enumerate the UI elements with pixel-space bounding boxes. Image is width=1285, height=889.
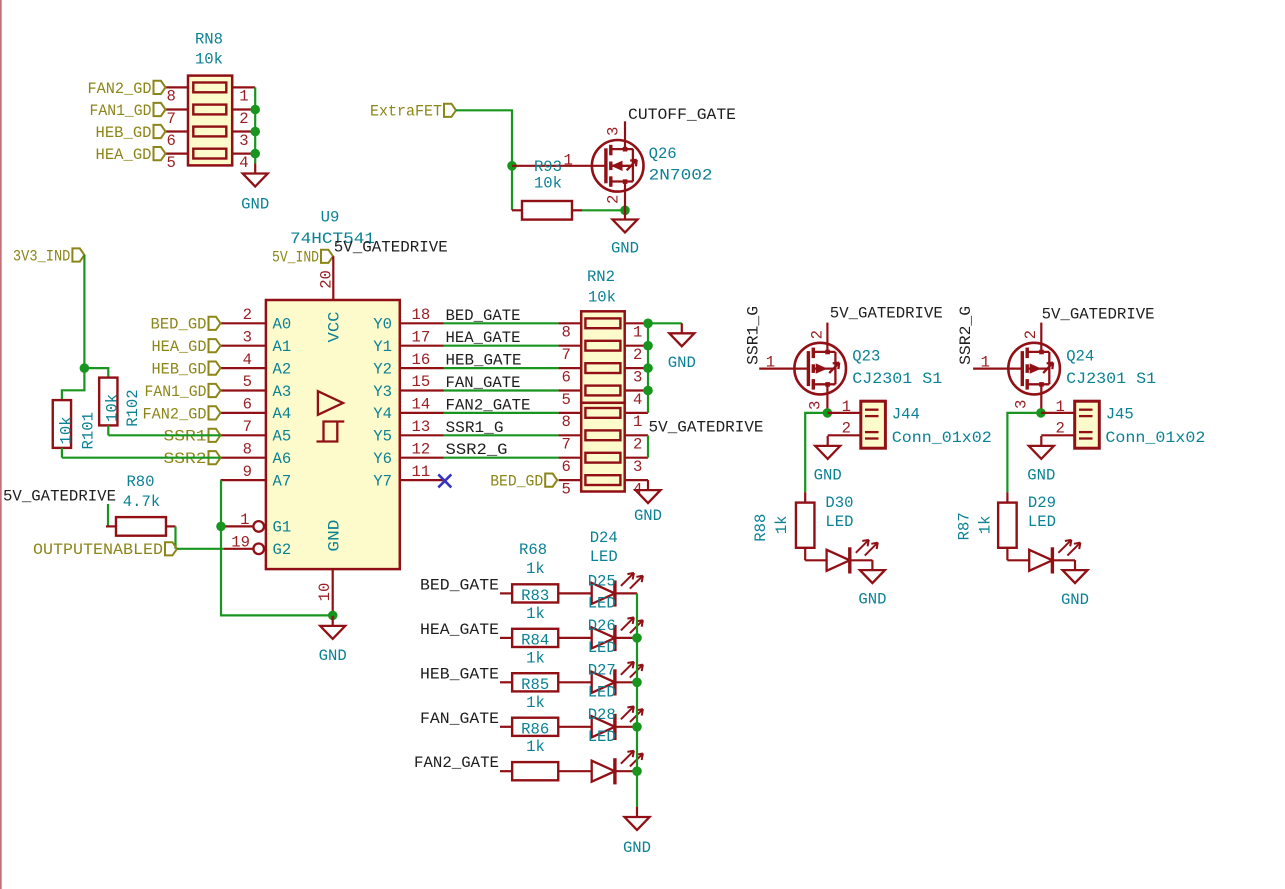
svg-text:FAN2_GATE: FAN2_GATE bbox=[446, 396, 531, 414]
svg-text:Y0: Y0 bbox=[373, 316, 392, 334]
svg-text:3: 3 bbox=[605, 127, 623, 136]
svg-text:D26: D26 bbox=[588, 617, 616, 635]
svg-text:A5: A5 bbox=[273, 428, 292, 446]
svg-text:A7: A7 bbox=[273, 472, 292, 490]
svg-text:R102: R102 bbox=[124, 389, 142, 426]
svg-text:11: 11 bbox=[412, 463, 431, 481]
svg-text:18: 18 bbox=[412, 306, 431, 324]
svg-text:1: 1 bbox=[239, 88, 248, 106]
svg-text:5V_GATEDRIVE: 5V_GATEDRIVE bbox=[1042, 306, 1155, 324]
svg-text:8: 8 bbox=[562, 324, 571, 342]
svg-text:J45: J45 bbox=[1106, 405, 1134, 423]
svg-text:SSR2_G: SSR2_G bbox=[446, 441, 508, 459]
svg-text:5: 5 bbox=[562, 480, 571, 498]
svg-text:GND: GND bbox=[611, 240, 639, 258]
svg-text:8: 8 bbox=[243, 440, 252, 458]
svg-text:Conn_01x02: Conn_01x02 bbox=[1105, 429, 1205, 447]
svg-text:8: 8 bbox=[562, 413, 571, 431]
svg-text:A2: A2 bbox=[273, 360, 292, 378]
svg-text:R93: R93 bbox=[534, 158, 562, 176]
svg-text:3: 3 bbox=[1013, 400, 1031, 409]
svg-text:FAN_GATE: FAN_GATE bbox=[420, 710, 499, 728]
svg-text:SSR1_G: SSR1_G bbox=[744, 306, 762, 365]
svg-text:RN8: RN8 bbox=[195, 31, 223, 49]
svg-text:OUTPUTENABLED: OUTPUTENABLED bbox=[33, 541, 163, 559]
svg-text:FAN2_GD: FAN2_GD bbox=[88, 80, 152, 98]
svg-text:HEB_GD: HEB_GD bbox=[96, 124, 152, 142]
svg-text:R86: R86 bbox=[521, 720, 549, 738]
svg-text:HEA_GD: HEA_GD bbox=[96, 146, 152, 164]
svg-text:16: 16 bbox=[412, 351, 431, 369]
svg-text:LED: LED bbox=[588, 594, 616, 612]
svg-text:2: 2 bbox=[633, 346, 642, 364]
svg-text:HEB_GD: HEB_GD bbox=[152, 361, 207, 379]
svg-text:Y5: Y5 bbox=[373, 428, 392, 446]
svg-text:D30: D30 bbox=[825, 494, 853, 512]
svg-text:5: 5 bbox=[243, 373, 252, 391]
svg-text:GND: GND bbox=[241, 196, 269, 214]
svg-text:A3: A3 bbox=[273, 383, 292, 401]
svg-text:10k: 10k bbox=[104, 394, 122, 422]
svg-text:HEA_GATE: HEA_GATE bbox=[446, 329, 521, 347]
svg-text:A1: A1 bbox=[273, 338, 292, 356]
svg-text:Q24: Q24 bbox=[1066, 348, 1094, 366]
svg-text:G1: G1 bbox=[273, 519, 292, 537]
svg-text:CUTOFF_GATE: CUTOFF_GATE bbox=[628, 106, 736, 124]
svg-text:CJ2301 S1: CJ2301 S1 bbox=[1066, 370, 1156, 388]
svg-text:1: 1 bbox=[1056, 398, 1065, 416]
svg-text:R83: R83 bbox=[521, 587, 549, 605]
svg-text:D27: D27 bbox=[588, 661, 616, 679]
svg-text:VCC: VCC bbox=[325, 312, 343, 343]
svg-text:3: 3 bbox=[633, 368, 642, 386]
svg-text:2: 2 bbox=[1022, 330, 1040, 339]
svg-text:Y3: Y3 bbox=[373, 383, 392, 401]
svg-text:10k: 10k bbox=[588, 289, 616, 307]
svg-text:1: 1 bbox=[981, 354, 990, 372]
svg-text:G2: G2 bbox=[273, 541, 292, 559]
svg-text:1: 1 bbox=[633, 413, 642, 431]
svg-text:8: 8 bbox=[167, 88, 176, 106]
svg-text:R80: R80 bbox=[126, 473, 154, 491]
svg-text:LED: LED bbox=[588, 728, 616, 746]
svg-text:D29: D29 bbox=[1028, 494, 1056, 512]
svg-text:R68: R68 bbox=[519, 541, 547, 559]
svg-text:Conn_01x02: Conn_01x02 bbox=[892, 429, 992, 447]
svg-text:1k: 1k bbox=[773, 515, 791, 534]
svg-text:6: 6 bbox=[562, 368, 571, 386]
svg-text:10k: 10k bbox=[534, 175, 562, 193]
svg-text:Y4: Y4 bbox=[373, 405, 392, 423]
svg-text:LED: LED bbox=[588, 639, 616, 657]
svg-text:A6: A6 bbox=[273, 450, 292, 468]
svg-text:9: 9 bbox=[243, 463, 252, 481]
svg-text:GND: GND bbox=[1027, 467, 1055, 485]
svg-text:19: 19 bbox=[231, 534, 250, 552]
svg-text:6: 6 bbox=[167, 132, 176, 150]
svg-text:13: 13 bbox=[412, 418, 431, 436]
svg-text:1k: 1k bbox=[526, 738, 545, 756]
svg-text:FAN1_GD: FAN1_GD bbox=[90, 102, 152, 120]
svg-text:1k: 1k bbox=[526, 560, 545, 578]
svg-text:2: 2 bbox=[808, 330, 826, 339]
svg-text:R88: R88 bbox=[752, 514, 770, 542]
svg-text:U9: U9 bbox=[321, 209, 340, 227]
svg-text:D25: D25 bbox=[588, 572, 616, 590]
svg-text:5: 5 bbox=[167, 154, 176, 172]
svg-text:BED_GATE: BED_GATE bbox=[420, 576, 499, 594]
svg-text:GND: GND bbox=[1061, 591, 1089, 609]
svg-text:7: 7 bbox=[167, 110, 176, 128]
svg-text:GND: GND bbox=[634, 507, 662, 525]
svg-text:Y2: Y2 bbox=[373, 360, 392, 378]
svg-text:HEB_GATE: HEB_GATE bbox=[420, 665, 499, 683]
svg-text:Y1: Y1 bbox=[373, 338, 392, 356]
svg-text:R101: R101 bbox=[80, 412, 98, 449]
svg-text:D24: D24 bbox=[590, 529, 618, 547]
svg-text:15: 15 bbox=[412, 373, 431, 391]
svg-text:12: 12 bbox=[412, 440, 431, 458]
svg-text:R87: R87 bbox=[956, 512, 974, 540]
svg-text:4: 4 bbox=[239, 154, 248, 172]
svg-text:GND: GND bbox=[319, 647, 347, 665]
svg-text:17: 17 bbox=[412, 328, 431, 346]
svg-text:1: 1 bbox=[766, 354, 775, 372]
svg-text:6: 6 bbox=[562, 458, 571, 476]
svg-text:2: 2 bbox=[243, 306, 252, 324]
svg-text:HEA_GD: HEA_GD bbox=[152, 338, 207, 356]
svg-text:A4: A4 bbox=[273, 405, 292, 423]
svg-text:GND: GND bbox=[668, 354, 696, 372]
svg-text:5V_GATEDRIVE: 5V_GATEDRIVE bbox=[830, 305, 943, 323]
svg-text:10k: 10k bbox=[57, 416, 75, 444]
svg-text:1: 1 bbox=[240, 511, 249, 529]
svg-text:14: 14 bbox=[412, 396, 431, 414]
svg-text:6: 6 bbox=[243, 396, 252, 414]
svg-text:FAN1_GD: FAN1_GD bbox=[145, 383, 207, 401]
svg-text:5V_GATEDRIVE: 5V_GATEDRIVE bbox=[649, 419, 764, 437]
svg-text:D28: D28 bbox=[588, 706, 616, 724]
svg-text:7: 7 bbox=[562, 346, 571, 364]
svg-text:SSR1: SSR1 bbox=[164, 428, 207, 446]
svg-text:GND: GND bbox=[325, 520, 343, 552]
svg-text:GND: GND bbox=[814, 467, 842, 485]
svg-text:3: 3 bbox=[243, 328, 252, 346]
svg-text:1k: 1k bbox=[526, 694, 545, 712]
svg-text:BED_GD: BED_GD bbox=[490, 473, 543, 491]
svg-text:HEB_GATE: HEB_GATE bbox=[446, 352, 522, 370]
svg-text:5V_IND: 5V_IND bbox=[272, 249, 319, 267]
svg-text:ExtraFET: ExtraFET bbox=[370, 103, 442, 121]
svg-text:1: 1 bbox=[842, 398, 851, 416]
svg-text:LED: LED bbox=[825, 513, 853, 531]
svg-text:CJ2301 S1: CJ2301 S1 bbox=[852, 370, 942, 388]
svg-text:R84: R84 bbox=[521, 631, 549, 649]
svg-text:3: 3 bbox=[806, 401, 824, 410]
svg-text:R85: R85 bbox=[521, 676, 549, 694]
svg-text:A0: A0 bbox=[273, 316, 292, 334]
svg-text:4.7k: 4.7k bbox=[123, 493, 160, 511]
svg-text:SSR2_G: SSR2_G bbox=[957, 306, 975, 365]
svg-text:1k: 1k bbox=[526, 605, 545, 623]
svg-text:2N7002: 2N7002 bbox=[649, 167, 713, 185]
svg-text:GND: GND bbox=[858, 591, 886, 609]
svg-text:2: 2 bbox=[633, 436, 642, 454]
svg-text:3: 3 bbox=[633, 458, 642, 476]
svg-text:LED: LED bbox=[588, 683, 616, 701]
svg-text:3: 3 bbox=[239, 132, 248, 150]
svg-text:LED: LED bbox=[1028, 513, 1056, 531]
svg-text:GND: GND bbox=[623, 839, 651, 857]
svg-text:1: 1 bbox=[564, 152, 573, 170]
svg-text:5V_GATEDRIVE: 5V_GATEDRIVE bbox=[3, 487, 116, 505]
svg-text:BED_GD: BED_GD bbox=[151, 316, 207, 334]
svg-text:5: 5 bbox=[562, 391, 571, 409]
svg-text:2: 2 bbox=[239, 110, 248, 128]
svg-text:1: 1 bbox=[633, 324, 642, 342]
svg-text:7: 7 bbox=[243, 418, 252, 436]
svg-text:Q26: Q26 bbox=[649, 145, 677, 163]
svg-text:2: 2 bbox=[605, 195, 623, 204]
svg-text:FAN2_GATE: FAN2_GATE bbox=[414, 754, 499, 772]
svg-text:RN2: RN2 bbox=[587, 268, 615, 286]
svg-text:20: 20 bbox=[318, 270, 336, 289]
svg-text:SSR2: SSR2 bbox=[164, 450, 207, 468]
svg-text:LED: LED bbox=[590, 548, 618, 566]
svg-text:10k: 10k bbox=[195, 51, 223, 69]
svg-text:7: 7 bbox=[562, 436, 571, 454]
svg-text:4: 4 bbox=[243, 351, 252, 369]
svg-text:4: 4 bbox=[633, 391, 642, 409]
svg-text:1k: 1k bbox=[526, 649, 545, 667]
svg-text:3V3_IND: 3V3_IND bbox=[13, 247, 71, 265]
svg-text:Y7: Y7 bbox=[373, 472, 392, 490]
svg-text:Q23: Q23 bbox=[852, 348, 880, 366]
svg-text:5V_GATEDRIVE: 5V_GATEDRIVE bbox=[334, 239, 448, 257]
svg-text:HEA_GATE: HEA_GATE bbox=[420, 621, 499, 639]
svg-text:SSR1_G: SSR1_G bbox=[446, 419, 504, 437]
svg-text:FAN_GATE: FAN_GATE bbox=[446, 374, 521, 392]
svg-text:FAN2_GD: FAN2_GD bbox=[143, 405, 207, 423]
svg-text:1k: 1k bbox=[977, 515, 995, 534]
svg-text:J44: J44 bbox=[892, 405, 920, 423]
svg-text:BED_GATE: BED_GATE bbox=[446, 307, 521, 325]
svg-text:10: 10 bbox=[316, 583, 334, 602]
svg-text:Y6: Y6 bbox=[373, 450, 392, 468]
